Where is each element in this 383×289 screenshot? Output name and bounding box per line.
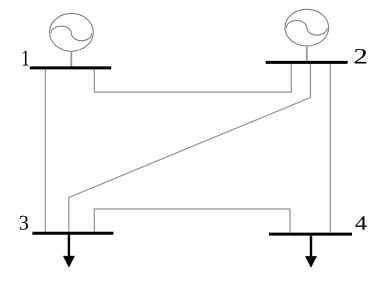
- bus 1 bar: [30, 66, 111, 69]
- bus 4 bar: [269, 233, 352, 236]
- load arrow at bus 3: [63, 235, 75, 268]
- node label 4: [355, 216, 366, 230]
- wire line 3-4: [94, 209, 290, 232]
- wire line 2-3: [69, 64, 311, 232]
- generator G2 stem wire: [306, 46, 308, 61]
- wire line 1-2: [94, 64, 291, 92]
- wire line 2-4: [329, 64, 331, 233]
- generator G1 circle: [50, 13, 94, 51]
- bus 2 bar: [266, 61, 348, 64]
- bus 3 bar: [32, 232, 113, 235]
- node label 2: [355, 49, 367, 64]
- node label 1: [23, 51, 29, 66]
- generator G1 sine wave: [51, 26, 92, 41]
- generator G1 stem wire: [70, 51, 72, 67]
- node label 3: [20, 216, 28, 230]
- generator G2 circle: [285, 9, 329, 46]
- wire line 1-3: [44, 69, 46, 232]
- generator G2 sine wave: [286, 21, 327, 36]
- load arrow at bus 4: [305, 236, 317, 268]
